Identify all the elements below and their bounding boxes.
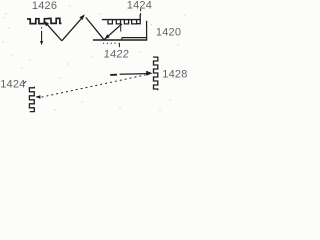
svg-text:1424: 1424 — [127, 0, 152, 11]
svg-text:1422: 1422 — [103, 49, 130, 61]
svg-text:1426: 1426 — [32, 0, 57, 12]
svg-text:1420: 1420 — [156, 27, 181, 39]
svg-text:1424: 1424 — [0, 79, 25, 91]
svg-text:1428: 1428 — [162, 68, 187, 80]
